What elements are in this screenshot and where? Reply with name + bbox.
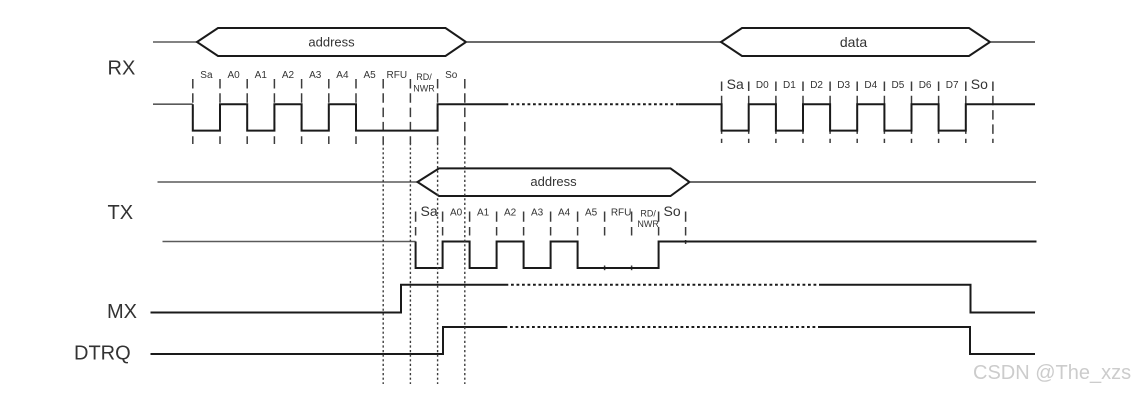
svg-text:A0: A0 bbox=[227, 70, 240, 81]
svg-text:So: So bbox=[445, 70, 458, 81]
svg-text:D3: D3 bbox=[837, 80, 850, 91]
svg-text:So: So bbox=[664, 203, 681, 219]
svg-text:A1: A1 bbox=[477, 208, 490, 219]
svg-text:NWR: NWR bbox=[413, 84, 435, 94]
svg-text:TX: TX bbox=[108, 202, 134, 224]
svg-text:A4: A4 bbox=[558, 208, 571, 219]
svg-text:A1: A1 bbox=[255, 70, 268, 81]
svg-text:So: So bbox=[971, 76, 988, 92]
svg-text:A5: A5 bbox=[585, 208, 598, 219]
svg-text:address: address bbox=[308, 35, 355, 50]
svg-text:A3: A3 bbox=[309, 70, 322, 81]
svg-text:D7: D7 bbox=[946, 80, 959, 91]
svg-text:D5: D5 bbox=[892, 80, 905, 91]
svg-text:RFU: RFU bbox=[611, 208, 632, 219]
svg-text:Sa: Sa bbox=[727, 76, 744, 92]
svg-text:D0: D0 bbox=[756, 80, 769, 91]
svg-text:A0: A0 bbox=[450, 208, 463, 219]
svg-text:D2: D2 bbox=[810, 80, 823, 91]
svg-text:A4: A4 bbox=[336, 70, 349, 81]
svg-text:DTRQ: DTRQ bbox=[74, 342, 131, 364]
svg-text:data: data bbox=[840, 34, 867, 50]
svg-text:address: address bbox=[530, 174, 577, 189]
svg-text:A2: A2 bbox=[504, 208, 517, 219]
svg-text:D1: D1 bbox=[783, 80, 796, 91]
svg-text:RX: RX bbox=[108, 58, 136, 80]
svg-text:D4: D4 bbox=[864, 80, 877, 91]
svg-text:D6: D6 bbox=[919, 80, 932, 91]
svg-text:A2: A2 bbox=[282, 70, 295, 81]
svg-text:Sa: Sa bbox=[421, 203, 438, 219]
svg-text:RD/: RD/ bbox=[416, 72, 432, 82]
svg-text:A3: A3 bbox=[531, 208, 544, 219]
svg-text:NWR: NWR bbox=[637, 219, 659, 229]
svg-text:CSDN @The_xzs: CSDN @The_xzs bbox=[973, 362, 1131, 384]
svg-text:Sa: Sa bbox=[200, 70, 213, 81]
svg-text:RFU: RFU bbox=[387, 70, 408, 81]
svg-text:RD/: RD/ bbox=[640, 209, 656, 219]
svg-text:MX: MX bbox=[107, 301, 137, 323]
svg-text:A5: A5 bbox=[363, 70, 376, 81]
